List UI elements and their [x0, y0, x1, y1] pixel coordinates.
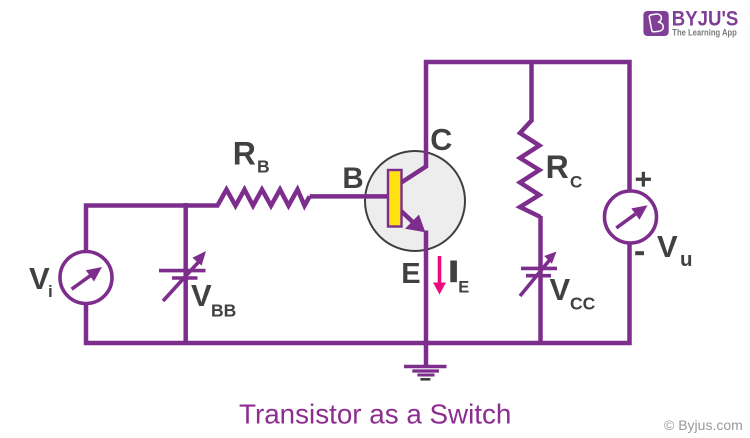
ground: bar 1	[404, 365, 447, 368]
wire: emitter vertical down through bottom wire to ground	[424, 231, 429, 366]
wire: VBB rail	[183, 203, 188, 345]
source VBB: diagonal arrow	[163, 251, 206, 301]
svg-text:R: R	[233, 136, 256, 172]
source VBB: variable symbol bars	[159, 271, 206, 278]
resistor RC: top lead	[529, 60, 534, 122]
transistor Q1: emitter diagonal	[399, 209, 417, 226]
svg-text:The Learning App: The Learning App	[672, 28, 737, 38]
svg-text:i: i	[48, 282, 53, 301]
meter Vu: circle	[605, 191, 657, 243]
svg-text:E: E	[458, 278, 469, 296]
svg-text:Transistor as a Switch: Transistor as a Switch	[239, 399, 511, 430]
svg-text:C: C	[570, 172, 582, 191]
ground: bar 4 (dark)	[420, 378, 430, 381]
source VCC: diagonal arrow	[520, 252, 557, 297]
ground: bar 3	[417, 374, 434, 377]
svg-text:V: V	[191, 278, 212, 313]
resistor RC: zigzag	[520, 121, 541, 218]
svg-text:© Byjus.com: © Byjus.com	[664, 417, 743, 433]
meter Vu: arrow	[616, 205, 647, 228]
ground: bar 2	[412, 369, 439, 372]
resistor RB: zigzag	[218, 190, 310, 206]
svg-text:B: B	[257, 157, 270, 177]
label plus	[636, 172, 651, 187]
wire: left rail below Vi + bottom wire + right rail below Vu	[86, 241, 630, 343]
transistor Q1: body circle	[365, 151, 465, 251]
label minus	[635, 251, 644, 255]
wire: collector vertical + top wire + right rail above Vu	[426, 62, 630, 194]
source Vi: arrow	[72, 267, 102, 289]
svg-text:CC: CC	[570, 294, 596, 314]
svg-text:BB: BB	[211, 301, 236, 321]
wire: RC/VCC rail down to bottom	[538, 216, 543, 345]
label IE	[450, 261, 457, 283]
svg-text:B: B	[342, 162, 363, 195]
logo BYJU'S: purple box	[643, 11, 668, 36]
current IE: pink arrow	[433, 256, 446, 295]
wire: left loop top (Vi node to RB)	[86, 206, 219, 255]
svg-text:R: R	[546, 149, 569, 185]
svg-text:u: u	[680, 248, 693, 271]
transistor Q1: collector diagonal	[399, 166, 428, 185]
transistor Q1: base bar	[388, 170, 402, 227]
transistor Q1: emitter arrowhead	[405, 215, 425, 233]
svg-text:C: C	[430, 123, 452, 157]
logo BYJU'S: white B glyph	[649, 14, 663, 32]
source Vi: circle	[60, 252, 112, 304]
source VCC: variable symbol bars	[521, 268, 557, 275]
svg-text:E: E	[401, 258, 420, 290]
wire: base wire RB to transistor	[310, 194, 390, 199]
svg-text:V: V	[29, 261, 50, 296]
svg-text:V: V	[550, 272, 571, 307]
svg-text:V: V	[657, 229, 678, 264]
